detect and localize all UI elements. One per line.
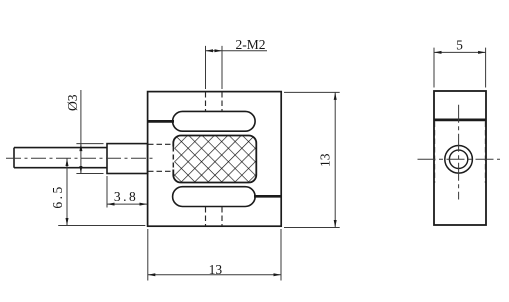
body outline [148, 92, 282, 227]
arrow left [434, 51, 442, 54]
svg-text:6.5: 6.5 [50, 184, 65, 208]
dimension line [107, 203, 147, 205]
svg-text:3.8: 3.8 [114, 189, 138, 204]
extension lines [206, 46, 223, 89]
arrow right [274, 273, 282, 276]
arrow down [79, 166, 82, 174]
arrow left [206, 49, 214, 52]
extension ticks [76, 144, 103, 174]
slot cut line (thick) [434, 119, 486, 122]
arrow right [215, 49, 223, 52]
center flexure block (crosshatched) [173, 136, 256, 183]
inner circle [449, 150, 467, 168]
side body outline [434, 91, 486, 225]
centerline through cable [6, 157, 156, 159]
svg-text:13: 13 [317, 153, 332, 167]
hidden edge segments [435, 122, 486, 184]
bottom extension line [58, 225, 145, 227]
connector block [107, 144, 148, 174]
hidden hole lines from left edge [148, 144, 172, 171]
dimension line [434, 51, 486, 53]
bottom slot cut line [254, 195, 281, 198]
mask over hatched block left edge (dashed hole passage) [172, 147, 174, 170]
extension lines [284, 92, 340, 227]
M2 hole hidden lines bottom [206, 207, 223, 226]
svg-text:5: 5 [456, 37, 463, 52]
dimension line [334, 92, 336, 227]
top slot cut line [147, 120, 174, 123]
arrow up [66, 159, 69, 167]
extension lines [148, 229, 281, 281]
vertical centerline [458, 105, 460, 200]
svg-text:2-M2: 2-M2 [236, 37, 266, 52]
outer circle [445, 146, 473, 174]
dimension line [148, 274, 281, 276]
cable rod [14, 148, 107, 168]
svg-text:13: 13 [209, 262, 223, 277]
arrow right [478, 51, 486, 54]
left extension line [106, 176, 108, 208]
arrow down [334, 220, 337, 228]
arrow right [140, 203, 148, 206]
top slot [173, 111, 256, 131]
arrow up [334, 92, 337, 100]
arrow up [79, 144, 82, 152]
dashed left edge of block [172, 147, 174, 170]
arrow down [66, 218, 69, 226]
dimension line [66, 159, 68, 226]
M2 hole hidden lines top [206, 92, 223, 111]
dimension/leader line [206, 50, 268, 52]
svg-text:Ø3: Ø3 [65, 94, 80, 111]
dimension line [80, 90, 82, 174]
arrow left [107, 203, 115, 206]
extension lines [434, 48, 486, 88]
horizontal centerline [418, 158, 501, 160]
arrow left [148, 273, 156, 276]
bottom slot [173, 187, 256, 207]
